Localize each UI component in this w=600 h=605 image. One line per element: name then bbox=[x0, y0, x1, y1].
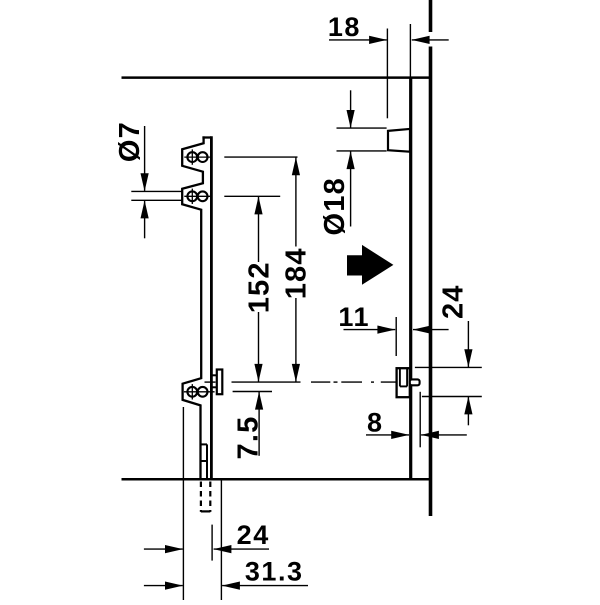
cabinet bottom panel line bbox=[122, 478, 433, 481]
dimension Ø18: text bbox=[319, 177, 351, 235]
svg-text:24: 24 bbox=[237, 520, 270, 550]
dimension 24 right: witness lines bbox=[415, 367, 482, 396]
adjusting pin stem on rail bbox=[211, 375, 217, 387]
svg-text:152: 152 bbox=[243, 261, 275, 313]
back panel front face line bbox=[409, 78, 412, 480]
top mounting hole pair (left circle with crosshair) bbox=[184, 149, 212, 164]
dimension 7.5: text bbox=[233, 416, 265, 460]
bottom extension line from rail right edge bbox=[211, 525, 213, 561]
back panel face extension line above top bbox=[409, 24, 411, 78]
clip inner slot bbox=[400, 369, 407, 386]
dimension 18: extension line at hook face bbox=[386, 29, 388, 119]
dimension 11: extension line at clip face bbox=[395, 317, 397, 356]
dimension 31.3: text bbox=[245, 557, 304, 587]
wall line (thick right vertical, gap for dimension tail) bbox=[429, 0, 433, 516]
dimension 7.5: arrow bbox=[255, 392, 263, 456]
dimension 152: arrows bbox=[254, 196, 262, 382]
bottom extension line from rail ear face bbox=[182, 407, 184, 600]
clip housing outer rectangle on panel bbox=[397, 368, 410, 397]
dimension 11: text bbox=[338, 302, 370, 332]
dimension 24 right: arrows bbox=[464, 321, 472, 425]
cabinet top panel line bbox=[122, 76, 433, 79]
centre line (dash-dot) through pin and clip bbox=[205, 381, 397, 383]
hanger hook keeper (trapezoid) on panel bbox=[388, 129, 410, 152]
mounting direction arrow (large solid) bbox=[347, 245, 393, 285]
dimensions 152/184: extension lines at hole centres bbox=[224, 157, 297, 196]
suspension rail top edge bbox=[202, 136, 211, 138]
dimension Ø18: arrows bbox=[347, 90, 355, 226]
dimension 18: dimension lines and arrows bbox=[329, 36, 449, 44]
clip tab through panel bbox=[410, 379, 420, 385]
second mounting hole pair bbox=[184, 189, 212, 204]
dimension 24 right: text bbox=[437, 284, 469, 319]
bottom extension line from pin cap face bbox=[220, 480, 222, 601]
suspension rail right edge bbox=[210, 136, 213, 478]
svg-text:8: 8 bbox=[367, 407, 384, 437]
dimension 184: text bbox=[280, 247, 312, 299]
dimension 8: extension line at tab end bbox=[419, 392, 421, 448]
dimension 7.5: extension line bbox=[233, 391, 272, 393]
svg-text:Ø18: Ø18 bbox=[319, 177, 351, 235]
suspension rail left profile with three ears bbox=[182, 136, 203, 478]
dimension 24 bottom: arrows bbox=[144, 545, 269, 553]
hidden rail continuation (dashed) below cabinet bottom bbox=[201, 482, 210, 512]
svg-text:31.3: 31.3 bbox=[245, 557, 304, 587]
dimension 8: arrows bbox=[366, 431, 467, 439]
svg-text:11: 11 bbox=[338, 302, 370, 332]
bottom mounting hole pair bbox=[184, 384, 215, 399]
dimension 31.3: arrows bbox=[144, 582, 308, 590]
dimension Ø18: witness lines bbox=[337, 128, 387, 151]
svg-text:24: 24 bbox=[437, 284, 469, 319]
dimension Ø7: arrows bbox=[141, 126, 149, 238]
svg-text:184: 184 bbox=[280, 247, 312, 299]
svg-text:Ø7: Ø7 bbox=[114, 121, 146, 162]
dimension Ø7: hole witness lines bbox=[131, 191, 182, 200]
svg-text:18: 18 bbox=[328, 12, 361, 42]
dimension 24 bottom: text bbox=[237, 520, 270, 550]
dimension 152: text bbox=[243, 261, 275, 313]
dimension 11: arrows bbox=[344, 326, 449, 334]
dimension 18: text bbox=[328, 12, 361, 42]
adjusting pin cap bbox=[217, 370, 223, 395]
dimension 184: arrows bbox=[292, 157, 300, 382]
dimension 8: text bbox=[367, 407, 384, 437]
rail inner slot detail near bottom bbox=[201, 444, 208, 478]
dimension Ø7: text bbox=[114, 121, 146, 162]
